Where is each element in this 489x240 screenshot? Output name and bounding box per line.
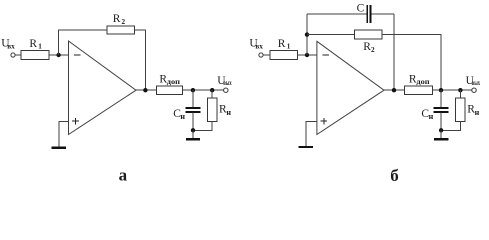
junction: ground node (a) [191, 128, 195, 132]
input terminal (a) [11, 53, 15, 57]
resistor Rн (b) [441, 90, 480, 130]
wire: R1 to inverting input (a) [49, 54, 69, 56]
output terminal (b) [472, 88, 476, 92]
wire: to ground (a, output) [192, 130, 194, 138]
svg-text:1: 1 [38, 43, 42, 51]
label Uвх (a) [1, 38, 15, 51]
resistor R2 (b) [354, 30, 382, 54]
svg-text:вых: вых [472, 79, 481, 87]
svg-text:н: н [226, 108, 231, 117]
svg-text:н: н [180, 112, 185, 121]
junction: Rн node (b) [458, 88, 462, 92]
output terminal (a) [224, 88, 228, 92]
junction: inverting input node (a) [56, 53, 60, 57]
wire: tee to R2 (b) [307, 34, 354, 36]
svg-text:а: а [119, 165, 128, 183]
svg-text:н: н [475, 108, 480, 117]
junction: ground node (b) [439, 128, 443, 132]
resistor R1 (b) [270, 38, 298, 59]
wire: feedback left vertical + top (a) [59, 30, 107, 55]
wire: noninverting input to ground (a) [59, 122, 68, 147]
resistor Rдоп (b) [405, 74, 433, 95]
junction: after-Rдоп node (b) [439, 88, 443, 92]
svg-text:R: R [278, 38, 286, 50]
junction: output node (a) [143, 88, 147, 92]
op-amp U1 (a) [69, 41, 137, 135]
resistor Rн (a) [193, 90, 231, 130]
wire: R2 to after-Rдоп node (b) [382, 35, 441, 91]
ground (a, output) [186, 138, 200, 140]
wire: op-amp output (a) [136, 89, 156, 91]
svg-text:б: б [390, 166, 399, 183]
ground (b, output) [434, 138, 448, 140]
wire: terminal to R1 (b) [263, 54, 269, 56]
ground (a, input) [51, 147, 65, 149]
wire: op-amp output (b) [384, 89, 405, 91]
resistor Rдоп (a) [156, 74, 182, 95]
ground (b, input) [299, 146, 313, 148]
svg-text:1: 1 [287, 43, 291, 51]
wire: to ground (b, output) [440, 130, 442, 138]
junction: R2 branch tee (b) [305, 32, 309, 36]
label Uвых (b) [466, 75, 481, 87]
svg-text:вх: вх [7, 42, 15, 50]
junction: inverting input node (b) [305, 53, 309, 57]
wire: R1 to inverting input (b) [297, 54, 317, 56]
svg-text:C: C [357, 2, 365, 14]
wire: Rдоп to output terminal (b) [432, 89, 471, 91]
svg-text:2: 2 [122, 18, 126, 26]
svg-text:R: R [113, 13, 121, 25]
op-amp U2 (b) [317, 41, 384, 134]
label Uвых (a) [217, 75, 232, 87]
svg-text:доп: доп [416, 78, 429, 86]
input terminal (b) [259, 53, 263, 57]
svg-text:вых: вых [223, 79, 232, 87]
junction: output node (b) [392, 88, 396, 92]
svg-text:R: R [29, 38, 37, 50]
svg-text:н: н [429, 112, 434, 121]
resistor R1 (a) [21, 38, 49, 59]
wire: C branch down to output node (b) [393, 14, 395, 90]
svg-text:вх: вх [255, 42, 263, 50]
label Uвх (b) [249, 38, 263, 51]
wire: Rдоп to output terminal (a) [183, 89, 224, 91]
capacitor Cн (a) [173, 90, 200, 130]
svg-text:доп: доп [167, 78, 180, 86]
capacitor Cн (b) [421, 90, 448, 130]
capacitor C (b) [307, 2, 394, 22]
junction: Rн node (a) [210, 88, 214, 92]
wire: terminal to R1 (a) [15, 54, 21, 56]
resistor R2 (a) [107, 13, 135, 34]
junction: Cн node (a) [191, 88, 195, 92]
wire: noninverting input to ground (b) [306, 122, 317, 146]
wire: feedback left vertical (b) [306, 14, 308, 55]
wire: R2 to output node (a) [135, 30, 146, 90]
svg-text:2: 2 [371, 46, 375, 54]
